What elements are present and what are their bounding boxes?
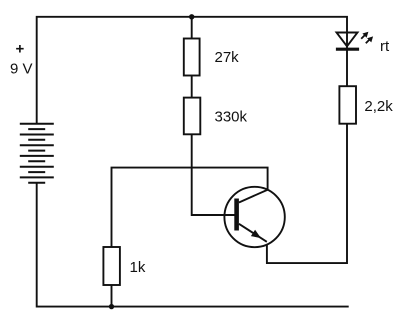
transistor emitter lead — [239, 224, 267, 242]
svg-text:rt: rt — [380, 38, 390, 55]
resistor 27k — [184, 39, 200, 76]
wire 27k to 330k — [191, 76, 193, 98]
node top junction — [189, 14, 194, 19]
LED triangle anode — [337, 33, 358, 47]
wire bottom rail — [37, 183, 349, 307]
svg-text:+: + — [16, 41, 25, 58]
LED light arrow 2 — [366, 36, 373, 43]
resistor 1k — [103, 247, 120, 285]
svg-text:9 V: 9 V — [10, 60, 33, 77]
transistor Q1 — [224, 187, 284, 247]
svg-text:27k: 27k — [215, 49, 240, 66]
transistor body circle — [224, 187, 284, 247]
LED cathode bar — [336, 48, 359, 51]
battery B1 9V — [20, 124, 54, 183]
wire LED cathode to 2,2k — [346, 49, 348, 86]
svg-text:1k: 1k — [130, 259, 146, 276]
node bottom junction — [109, 304, 114, 309]
wire 1k to ground rail — [111, 285, 113, 307]
transistor collector lead — [239, 190, 268, 203]
svg-text:2,2k: 2,2k — [364, 98, 393, 115]
resistor 2,2k — [339, 86, 356, 124]
resistor 330k — [184, 98, 201, 135]
LED D1 — [336, 33, 359, 50]
wire collector net — [112, 168, 268, 247]
LED light arrow 1 — [361, 32, 368, 39]
transistor base bar — [234, 199, 239, 231]
transistor emitter arrow — [251, 230, 261, 238]
svg-text:330k: 330k — [215, 109, 248, 126]
wire emitter to 2,2k — [267, 124, 347, 263]
wire top rail — [37, 17, 347, 124]
wire 330k to base — [192, 134, 235, 215]
wire junction to 27k — [191, 17, 193, 39]
